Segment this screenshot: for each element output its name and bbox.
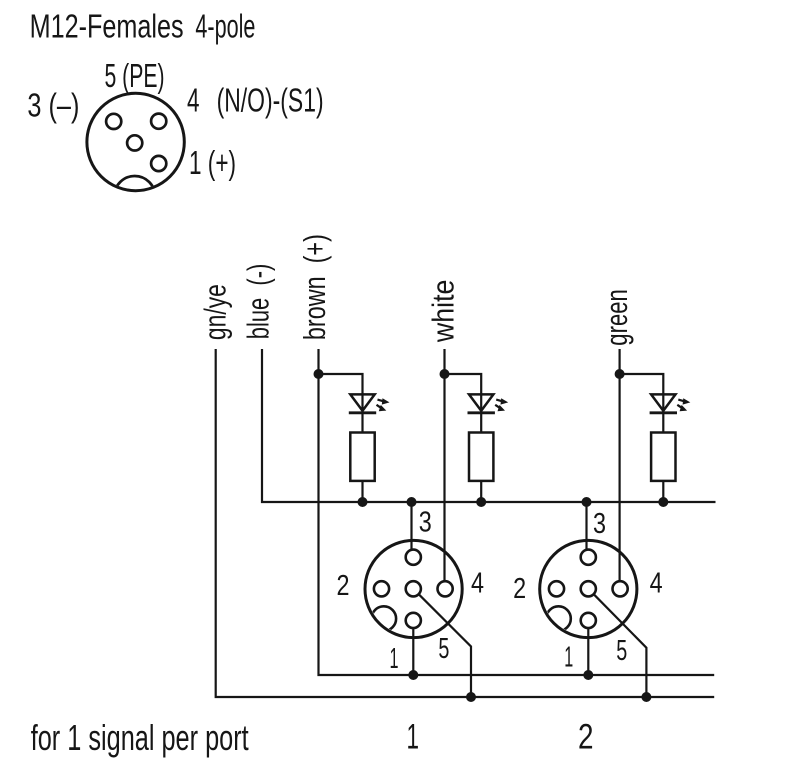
- resistor R3: [651, 433, 675, 481]
- X2 pin 4 hole: [613, 581, 628, 596]
- svg-text:(N/O)-(S1): (N/O)-(S1): [217, 82, 324, 119]
- svg-text:1: 1: [407, 718, 420, 757]
- svg-text:1: 1: [390, 643, 399, 675]
- LED V2: [468, 394, 509, 412]
- svg-text:4-pole: 4-pole: [195, 8, 255, 45]
- LED V1: [349, 394, 390, 412]
- X1 pin 3 hole: [406, 550, 421, 565]
- wire X1 pin 5 to PE bus: [419, 594, 471, 697]
- X2 pin 2 hole: [549, 581, 564, 596]
- U0 pin 4 hole: [151, 114, 166, 129]
- node: X1 pin5 / PE bus: [466, 692, 476, 702]
- X1 keying notch: [372, 606, 397, 631]
- svg-text:for 1 signal per port: for 1 signal per port: [31, 717, 249, 758]
- svg-text:gn/ye: gn/ye: [198, 284, 233, 340]
- svg-text:3 (–): 3 (–): [27, 87, 79, 124]
- svg-text:5: 5: [438, 633, 449, 665]
- svg-text:2: 2: [513, 573, 526, 605]
- wire X2 pin 1 to plus bus: [587, 628, 589, 675]
- title "M12-Females 4-pole": [30, 8, 256, 45]
- node: X2 pin1 / plus bus: [583, 670, 593, 680]
- wire R3 to minus bus: [662, 481, 664, 502]
- LED V3: [650, 394, 691, 412]
- node: X1 pin1 / plus bus: [408, 670, 418, 680]
- svg-text:2: 2: [337, 570, 350, 602]
- connector X1 face (port 1): [365, 540, 462, 637]
- svg-text:5: 5: [616, 635, 627, 667]
- wire blue (-), runs down then right as minus bus: [262, 349, 716, 502]
- connector X2 face (port 2): [540, 540, 637, 637]
- X1 pin 4 hole: [438, 581, 453, 596]
- X2 pin 3 hole: [581, 550, 596, 565]
- X2 pin 1 hole: [581, 613, 596, 628]
- node: junction white wire / LED2 branch: [440, 369, 450, 379]
- node: minus bus / X1 pin 3 wire: [407, 497, 417, 507]
- U0 pin 1 hole: [151, 156, 166, 171]
- svg-text:blue (-): blue (-): [241, 264, 276, 340]
- svg-text:3: 3: [593, 508, 606, 540]
- svg-text:4: 4: [650, 568, 663, 600]
- wire X1 pin 1 to plus bus: [412, 628, 414, 675]
- svg-text:1 (+): 1 (+): [189, 144, 236, 181]
- X1 pin 2 hole: [374, 581, 389, 596]
- wire green (signal port 2): [618, 349, 620, 581]
- X1 pin 5 center hole: [406, 581, 421, 596]
- resistor R1: [350, 433, 374, 481]
- wire gn/ye (PE), runs down then right as bottom PE bus: [216, 349, 715, 697]
- X2 pin 5 center hole: [581, 581, 596, 596]
- resistor R2: [469, 433, 493, 481]
- svg-text:brown (+): brown (+): [297, 234, 332, 340]
- U0 keying notch: [114, 176, 155, 217]
- node: R2 / minus bus: [476, 497, 486, 507]
- svg-text:green: green: [599, 289, 634, 346]
- svg-text:2: 2: [578, 718, 594, 757]
- wire X2 pin 3: [585, 502, 587, 550]
- svg-text:M12-Females: M12-Females: [30, 8, 184, 45]
- svg-text:1: 1: [564, 642, 573, 674]
- svg-text:5 (PE): 5 (PE): [105, 57, 165, 94]
- wire X2 pin 5 to PE bus: [594, 594, 647, 697]
- wire LED1 branch: [319, 374, 363, 433]
- wire LED3 branch: [620, 374, 664, 433]
- wire white (signal port 1): [443, 349, 445, 581]
- svg-text:4: 4: [471, 568, 484, 600]
- node: R3 / minus bus: [658, 497, 668, 507]
- wire R2 to minus bus: [480, 481, 482, 502]
- X1 pin 1 hole: [406, 613, 421, 628]
- X2 keying notch: [546, 606, 571, 631]
- node: X2 pin5 / PE bus: [641, 692, 651, 702]
- wire brown (+), runs down then right as plus bus: [319, 349, 715, 675]
- wire X1 pin 3: [410, 502, 412, 550]
- U0 pin 3 hole: [106, 114, 121, 129]
- svg-text:4: 4: [187, 82, 200, 119]
- node: junction green wire / LED3 branch: [615, 369, 625, 379]
- connector U0 face (M12 female 4-pole): [87, 93, 184, 190]
- node: junction brown wire / LED1 branch: [314, 369, 324, 379]
- node: minus bus / X2 pin 3 wire: [582, 497, 592, 507]
- U0 pin 5 center hole: [127, 135, 142, 150]
- svg-text:3: 3: [419, 507, 432, 539]
- svg-text:white: white: [426, 280, 461, 343]
- wire R1 to minus bus: [361, 481, 363, 502]
- wire LED2 branch: [445, 374, 482, 433]
- node: R1 / minus bus: [358, 497, 368, 507]
